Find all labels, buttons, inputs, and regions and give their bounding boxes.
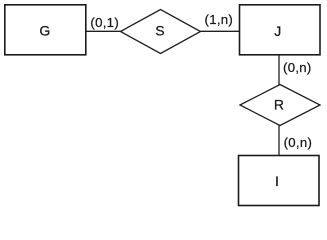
relationship S — [121, 10, 201, 54]
svg-text:G: G — [39, 22, 50, 38]
entity I — [239, 156, 320, 206]
svg-text:J: J — [274, 23, 281, 39]
svg-text:R: R — [274, 96, 284, 112]
svg-text:(0,n): (0,n) — [284, 135, 313, 150]
svg-text:(1,n): (1,n) — [205, 12, 234, 27]
svg-text:(0,n): (0,n) — [283, 60, 312, 75]
svg-text:I: I — [275, 173, 279, 189]
relationship R — [240, 85, 320, 126]
wire R to I — [278, 125, 280, 156]
wire J to R — [278, 55, 280, 85]
svg-text:(0,1): (0,1) — [90, 15, 119, 30]
entity G — [5, 5, 86, 55]
entity J — [240, 5, 321, 55]
wire G to S — [86, 30, 121, 32]
wire S to J — [200, 30, 240, 32]
svg-text:S: S — [155, 23, 164, 39]
